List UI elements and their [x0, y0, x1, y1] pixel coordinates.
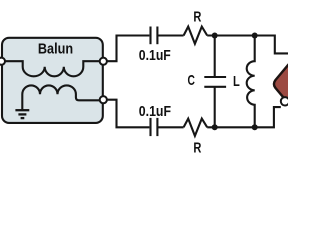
svg-text:R: R — [193, 140, 201, 157]
wire C2 to R2 — [157, 126, 183, 128]
wire C1 to R1 — [157, 34, 183, 36]
transformer primary winding — [2, 61, 103, 76]
capacitor C2 0.1uF bottom — [151, 118, 158, 136]
pin node on diamond — [281, 97, 289, 105]
wire bottom from balun to C2 — [107, 100, 149, 128]
wire top from balun to C1 — [107, 36, 149, 62]
svg-text:C: C — [188, 72, 196, 89]
node upper right port — [100, 58, 107, 65]
svg-text:Balun: Balun — [38, 40, 73, 57]
junction top C — [212, 33, 218, 39]
wire top rail — [207, 36, 288, 54]
transformer secondary winding — [22, 85, 103, 110]
ground — [15, 110, 29, 118]
resistor R1 top — [184, 27, 208, 44]
svg-text:L: L — [233, 73, 240, 90]
svg-text:0.1uF: 0.1uF — [139, 103, 171, 120]
resistor R2 bottom — [184, 119, 208, 136]
junction bottom C — [212, 124, 218, 130]
antenna element red diamond — [274, 63, 307, 104]
balun box U1 — [2, 38, 103, 123]
node lower right port — [100, 96, 107, 103]
capacitor C1 0.1uF top — [151, 27, 158, 45]
capacitor C shunt — [214, 36, 216, 78]
junction bottom L — [252, 124, 258, 130]
svg-text:0.1uF: 0.1uF — [139, 47, 171, 64]
wire bottom rail — [207, 107, 281, 127]
junction top L — [252, 33, 258, 39]
svg-text:R: R — [193, 8, 201, 25]
inductor L shunt — [247, 36, 255, 128]
node left port — [0, 58, 5, 65]
